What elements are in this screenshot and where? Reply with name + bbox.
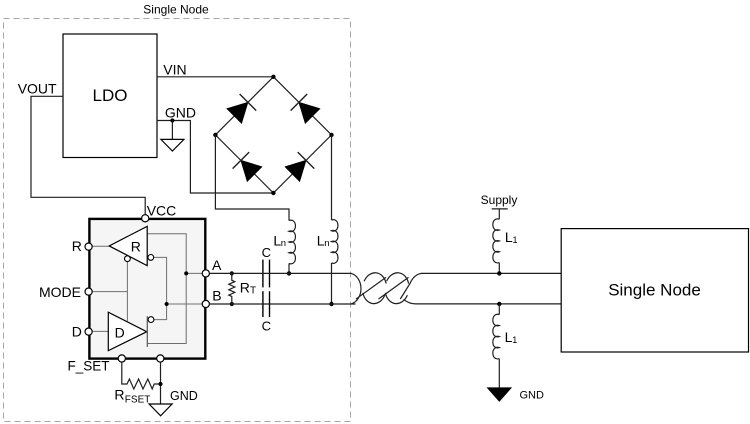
svg-text:GND: GND bbox=[165, 104, 196, 120]
svg-text:C: C bbox=[262, 319, 271, 334]
svg-text:B: B bbox=[212, 288, 221, 304]
svg-text:VIN: VIN bbox=[163, 61, 186, 77]
svg-text:FSET: FSET bbox=[125, 395, 151, 406]
svg-text:n: n bbox=[281, 238, 286, 249]
svg-text:VOUT: VOUT bbox=[18, 81, 57, 97]
svg-text:Supply: Supply bbox=[481, 193, 518, 207]
svg-text:C: C bbox=[262, 245, 271, 260]
svg-text:F_SET: F_SET bbox=[68, 359, 110, 374]
svg-text:VCC: VCC bbox=[147, 203, 177, 219]
svg-text:1: 1 bbox=[512, 335, 517, 345]
svg-text:Single Node: Single Node bbox=[143, 3, 209, 17]
svg-text:R: R bbox=[240, 280, 250, 296]
svg-text:D: D bbox=[115, 324, 125, 340]
svg-text:LDO: LDO bbox=[93, 86, 128, 105]
svg-text:A: A bbox=[212, 257, 222, 273]
svg-text:Single Node: Single Node bbox=[608, 280, 701, 299]
svg-text:GND: GND bbox=[520, 389, 545, 401]
svg-text:MODE: MODE bbox=[39, 284, 81, 300]
svg-text:n: n bbox=[324, 238, 329, 249]
svg-text:R: R bbox=[72, 238, 82, 254]
svg-text:D: D bbox=[72, 323, 82, 339]
svg-text:R: R bbox=[114, 387, 124, 403]
svg-text:GND: GND bbox=[170, 389, 198, 403]
svg-text:R: R bbox=[131, 239, 141, 255]
svg-text:T: T bbox=[250, 286, 256, 297]
svg-text:1: 1 bbox=[513, 235, 518, 245]
